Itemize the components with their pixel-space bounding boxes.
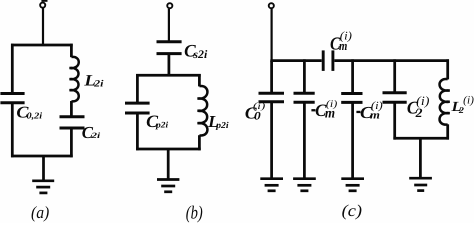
capacitor -Cm 1 — [294, 93, 315, 102]
svg-text:(i): (i) — [340, 30, 352, 43]
wire: ground stem C2-L2 (c) — [419, 138, 422, 178]
svg-text:(i): (i) — [371, 100, 383, 112]
label C0(i) — [245, 101, 265, 122]
wire: top rail (a) — [11, 44, 73, 47]
label L2i — [83, 73, 104, 90]
wire: left branch lower (b) — [136, 113, 139, 150]
wire: right branch upper (a) — [70, 44, 73, 58]
terminal port (c) — [269, 3, 274, 8]
svg-text:(c): (c) — [342, 201, 362, 220]
svg-text:(i): (i) — [416, 94, 429, 108]
wire: terminal stem (a) — [42, 8, 44, 45]
capacitor C2i — [60, 117, 85, 128]
wire: middle stem (b) — [168, 54, 171, 76]
svg-text:2i: 2i — [93, 78, 104, 89]
ground (b) — [157, 180, 179, 192]
ground (a) — [32, 181, 54, 193]
label -Cm(i) 1 — [311, 99, 338, 121]
wire: top rail right (c) — [334, 59, 449, 62]
wire: branch -Cm 2 (c) — [351, 59, 354, 93]
capacitor C0 — [259, 93, 285, 102]
label Cs2i — [184, 41, 208, 61]
caption (b) — [186, 203, 203, 224]
label C2(i) — [407, 94, 430, 120]
svg-text:2i: 2i — [90, 131, 101, 140]
wire: terminal stem (b) — [168, 9, 170, 42]
capacitor C0,2i — [0, 94, 24, 103]
label Cm(i) — [330, 30, 352, 54]
svg-text:2: 2 — [415, 106, 424, 120]
wire: left branch lower (a) — [11, 103, 14, 158]
label L2(i) — [450, 95, 474, 115]
wire: right branch lower L2 (c) — [446, 124, 449, 139]
wire: branch C2 lower (c) — [393, 102, 396, 139]
capacitor C2 — [383, 93, 407, 103]
wire: right branch lower (a) — [70, 128, 73, 157]
ground -Cm 2 (c) — [341, 179, 364, 191]
terminal port (b) — [167, 3, 172, 8]
label C2i — [82, 123, 101, 142]
svg-text:s2i: s2i — [192, 49, 208, 61]
inductor Lp2i — [198, 86, 208, 135]
svg-text:(a): (a) — [31, 203, 49, 222]
wire: top rail (b) — [136, 74, 201, 77]
wire: left branch upper (b) — [136, 74, 139, 103]
caption (a) — [31, 203, 49, 222]
ground -Cm 1 (c) — [293, 179, 316, 191]
wire: branch C2 (c) — [393, 59, 396, 92]
svg-text:p2i: p2i — [215, 120, 229, 130]
svg-text:(b): (b) — [186, 203, 203, 223]
svg-text:(i): (i) — [463, 95, 474, 107]
wire: top rail left (c) — [270, 59, 321, 62]
capacitor -Cm 2 — [341, 94, 362, 103]
label Lp2i — [207, 112, 229, 131]
wire: branch C0 (c) — [270, 61, 273, 94]
wire: left branch upper (a) — [11, 44, 14, 94]
wire: terminal stem (c) — [271, 9, 273, 61]
svg-text:p2i: p2i — [155, 120, 169, 130]
wire: right branch upper (b) — [198, 74, 201, 86]
svg-text:(i): (i) — [253, 101, 265, 112]
label -Cm(i) 2 — [356, 100, 383, 122]
wire: ground stem (a) — [42, 156, 45, 181]
ground C0 (c) — [260, 179, 283, 191]
wire: bottom rail C2-L2 (c) — [393, 137, 449, 140]
caption (c) — [342, 201, 362, 220]
wire: right branch lower (b) — [198, 135, 201, 150]
svg-text:(i): (i) — [326, 99, 338, 110]
capacitor Cp2i — [125, 103, 150, 113]
inductor L2i — [70, 57, 79, 101]
terminal port (a) — [40, 0, 47, 8]
wire: bottom rail (b) — [136, 148, 201, 151]
label C0,2i — [16, 103, 42, 122]
ground C2-L2 (c) — [409, 178, 432, 190]
wire: ground stem (b) — [167, 149, 170, 180]
svg-text:0,2i: 0,2i — [27, 110, 43, 120]
wire: bottom rail (a) — [11, 155, 73, 158]
wire: branch -Cm 1 lower (c) — [303, 102, 306, 179]
wire: branch C0 lower to ground (c) — [270, 102, 273, 179]
capacitor Cs2i — [157, 42, 182, 54]
wire: branch -Cm 1 (c) — [303, 59, 306, 93]
capacitor Cm series — [323, 50, 333, 71]
inductor L2 — [440, 79, 450, 125]
label Cp2i — [146, 112, 169, 131]
wire: right branch upper L2 (c) — [446, 59, 449, 79]
wire: branch -Cm 2 lower (c) — [351, 102, 354, 178]
wire: right branch middle (a) — [70, 101, 73, 117]
